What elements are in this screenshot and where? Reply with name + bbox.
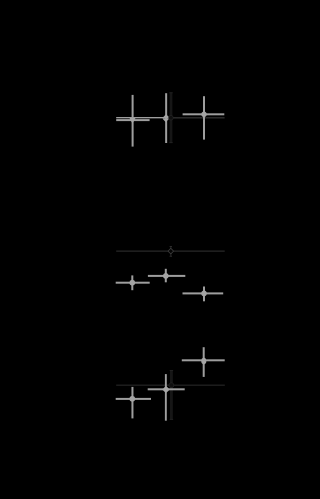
middle cluster: point E gray vertical error bar (165, 269, 167, 283)
top cluster: point C gray horizontal error bar (183, 113, 225, 115)
middle cluster: point D circle marker (129, 280, 135, 286)
bottom cluster: point G gray horizontal error bar (182, 359, 225, 361)
middle cluster: point F gray vertical error bar (203, 287, 205, 302)
top cluster: point B triangle-up marker (163, 115, 169, 118)
bottom cluster: point I gray vertical error bar (131, 387, 133, 419)
bottom cluster: black series circle marker (169, 383, 174, 388)
middle cluster: point D gray vertical error bar (131, 275, 133, 290)
bottom cluster: point I circle marker (129, 396, 135, 402)
middle cluster: black series horizontal error bar (116, 251, 225, 252)
bottom cluster: point I gray horizontal error bar (116, 398, 151, 400)
bottom cluster: point G ellipse marker (201, 358, 206, 365)
middle cluster: point D gray horizontal error bar (116, 282, 150, 284)
top cluster: point B gray horizontal error bar (116, 117, 173, 118)
bottom cluster: point H diamond marker (163, 386, 170, 392)
bottom cluster: point G gray vertical error bar (203, 347, 205, 377)
top cluster: point C gray vertical error bar (203, 96, 205, 139)
bottom cluster: black series horizontal error bar (116, 385, 225, 386)
top cluster: black series vertical error bar (169, 92, 172, 143)
bottom cluster: point H gray horizontal error bar (148, 388, 185, 390)
top cluster: point A gray horizontal error bar (116, 119, 149, 121)
middle cluster: black series open diamond marker (168, 248, 174, 254)
top cluster: point C circle marker (201, 112, 207, 118)
bottom cluster: black series vertical error bar (170, 370, 173, 420)
middle cluster: point F circle marker (201, 291, 207, 297)
bottom cluster: point H gray vertical error bar (165, 374, 167, 421)
top cluster: point B triangle-down marker (163, 119, 169, 122)
top cluster: black series circle marker (169, 115, 174, 120)
top cluster: point B gray vertical error bar (165, 93, 167, 143)
middle cluster: point F gray horizontal error bar (183, 292, 224, 294)
middle cluster: black series vertical error bar (170, 246, 172, 257)
top cluster: point A triangle-down marker (130, 118, 135, 123)
top cluster: point A gray vertical error bar (132, 95, 134, 147)
top cluster: black series horizontal error bar (116, 117, 224, 118)
middle cluster: point E circle marker (163, 273, 169, 279)
middle cluster: point E gray horizontal error bar (148, 275, 185, 277)
